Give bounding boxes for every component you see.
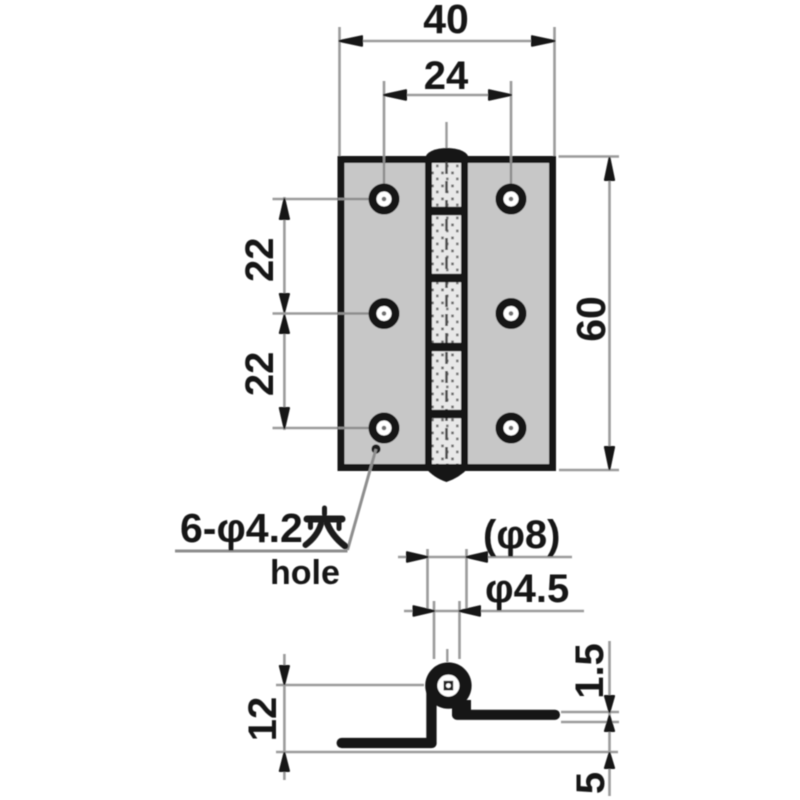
svg-text:22: 22: [238, 352, 282, 397]
knuckle right border: [461, 156, 468, 471]
dimension 40: extension lines: [340, 27, 555, 156]
crosshair lines over plate: vertical to top holes: [338, 156, 511, 428]
side view right leaf: [452, 710, 560, 720]
dimension 5: arrowhead: [605, 753, 614, 768]
leader line to hole note: [348, 449, 377, 550]
side view pin center dot: [446, 683, 451, 688]
dimension 40: dimension line: [340, 40, 555, 43]
leader underline: [175, 550, 348, 553]
side view barrel centerline tick: [446, 649, 448, 662]
dimension 24: extension lines down to top holes: [384, 81, 511, 156]
side view barrel outer ring: [425, 662, 471, 708]
vertical centerline above barrel: [445, 122, 447, 154]
dimension 12: extension line to barrel center: [276, 684, 424, 687]
dimension 24: arrowheads: [384, 90, 511, 100]
hole middle-right: [500, 302, 523, 325]
svg-text:1.5: 1.5: [568, 643, 612, 699]
dimension 12: arrowheads: [280, 666, 289, 771]
dimension 60: extension lines: [559, 157, 620, 471]
hole middle-left: [373, 302, 396, 325]
hole top-right: [500, 188, 523, 211]
right leaf thickness extension lines: [561, 712, 619, 722]
side view barrel bore: [437, 675, 459, 697]
hole top-left: [373, 188, 396, 211]
dimension phi4.5: extension lines: [434, 601, 460, 659]
svg-text:22: 22: [238, 237, 282, 282]
dimension phi8: extension lines: [428, 549, 467, 610]
hinge barrel bottom bump: [426, 468, 469, 482]
svg-text:5: 5: [569, 772, 613, 794]
leader dot at bottom-left hole: [371, 444, 380, 453]
side view left leaf: [337, 676, 437, 748]
knuckle left border: [425, 156, 432, 471]
knuckle separator band 2: [425, 274, 468, 283]
dimension 60: dimension line: [608, 158, 611, 469]
svg-text:6-φ4.2: 6-φ4.2: [180, 505, 303, 551]
knuckle separator band 4: [425, 410, 468, 419]
knuckle column fill with knurl texture: [431, 163, 462, 464]
dimension phi8: dimension line: [398, 556, 572, 559]
hole bottom-right: [500, 417, 523, 440]
dimension phi4.5: arrowheads: [414, 606, 481, 616]
svg-text:24: 24: [424, 54, 469, 98]
shared extension line at lower leaf bottom: [276, 751, 618, 754]
svg-text:12: 12: [241, 697, 285, 742]
dimension 24: dimension line: [384, 94, 511, 97]
hinge barrel top bump: [426, 148, 469, 158]
dimension 22: arrowheads: [280, 199, 289, 428]
dimension 1.5: arrowheads: [605, 696, 614, 731]
side view right leaf fillet to barrel: [452, 700, 471, 716]
dimension phi8: arrowheads: [407, 552, 487, 562]
dimension 40: arrowheads: [340, 36, 555, 46]
svg-text:(φ8): (φ8): [483, 513, 561, 557]
knuckle separator band 1: [425, 207, 468, 216]
svg-text:40: 40: [423, 0, 469, 42]
dimension 12: dimension line: [283, 654, 286, 780]
hole bottom-left: [373, 417, 396, 440]
svg-text:60: 60: [568, 296, 614, 342]
side view pin cross-section: [444, 681, 454, 691]
hinge plate (plan view): [341, 160, 553, 468]
dimension 60: arrowheads: [605, 158, 614, 469]
knuckle separator band 3: [425, 343, 468, 352]
hole note kanji ana (hole): [306, 508, 346, 546]
svg-text:hole: hole: [270, 554, 340, 592]
dimension 1.5 and 5: dimension line: [608, 641, 611, 796]
dimension phi4.5: dimension line: [404, 610, 584, 613]
dimension 22 (upper) and 22 (lower): dimension line: [283, 197, 286, 430]
hole row extension lines (left side): [273, 199, 339, 428]
knuckle pin dashed centerline: [445, 162, 448, 466]
svg-text:φ4.5: φ4.5: [485, 567, 569, 611]
